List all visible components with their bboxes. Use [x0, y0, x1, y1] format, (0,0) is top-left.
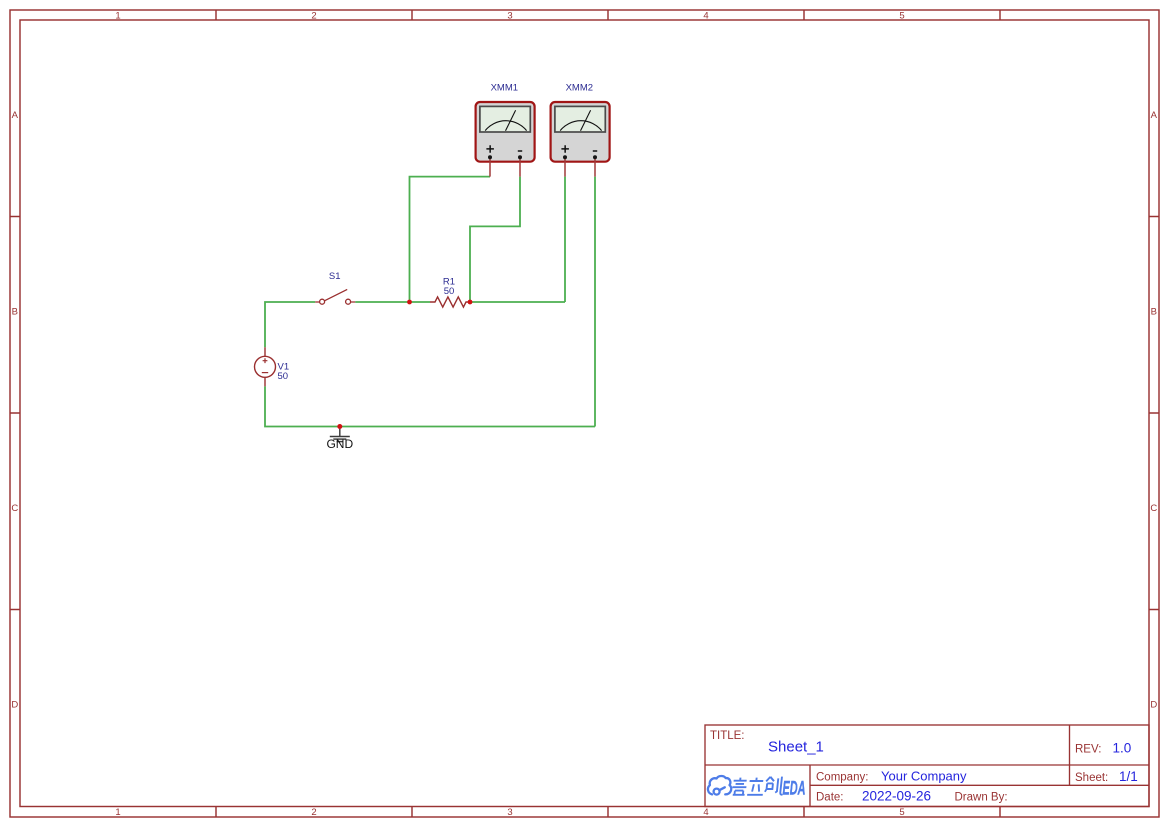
svg-text:B: B	[1151, 307, 1157, 318]
column ticks bottom	[216, 807, 1000, 818]
switch S1	[315, 289, 355, 304]
junction node A	[407, 300, 412, 305]
title block values	[768, 739, 1138, 804]
svg-text:EDA: EDA	[783, 779, 806, 800]
svg-text:Sheet:: Sheet:	[1075, 772, 1108, 784]
title block outline	[705, 725, 1149, 807]
svg-text:REV:: REV:	[1075, 744, 1101, 756]
frame column numbers top	[115, 10, 904, 21]
wire switch left to V1 top	[265, 302, 315, 347]
svg-text:4: 4	[703, 807, 708, 818]
svg-text:A: A	[1151, 110, 1158, 121]
svg-text:2: 2	[311, 807, 316, 818]
wire XMM2+ riser	[564, 177, 566, 302]
svg-text:B: B	[12, 307, 18, 318]
column ticks top	[216, 10, 1000, 20]
svg-text:4: 4	[703, 10, 708, 21]
svg-text:XMM1: XMM1	[491, 83, 518, 94]
resistor R1	[430, 297, 470, 307]
wire resistor right to XMM2 riser	[470, 301, 565, 303]
svg-text:Company:: Company:	[816, 771, 868, 783]
svg-text:1: 1	[115, 807, 120, 818]
wire XMM2- to bottom	[594, 177, 596, 427]
svg-text:A: A	[12, 110, 19, 121]
svg-text:Date:: Date:	[816, 792, 844, 804]
svg-text:Sheet_1: Sheet_1	[768, 739, 824, 756]
svg-text:XMM2: XMM2	[566, 83, 593, 94]
wire switch right to node A	[355, 301, 430, 303]
frame row letters left	[11, 110, 18, 710]
svg-text:1: 1	[115, 10, 120, 21]
row ticks left	[10, 217, 20, 610]
svg-text:5: 5	[899, 10, 904, 21]
svg-text:C: C	[1150, 503, 1157, 514]
svg-text:Your Company: Your Company	[881, 768, 967, 783]
logo EasyEDA cloud	[708, 776, 731, 795]
svg-text:C: C	[11, 503, 18, 514]
svg-text:1.0: 1.0	[1113, 741, 1132, 756]
svg-text:2022-09-26: 2022-09-26	[862, 789, 931, 804]
voltage source V1	[255, 347, 276, 386]
svg-text:1/1: 1/1	[1119, 769, 1138, 784]
frame row letters right	[1150, 110, 1157, 710]
svg-text:D: D	[1150, 699, 1157, 710]
svg-text:3: 3	[507, 807, 512, 818]
svg-text:S1: S1	[329, 271, 341, 282]
wire XMM1+ to node A	[410, 177, 491, 302]
svg-text:5: 5	[899, 807, 904, 818]
svg-text:3: 3	[507, 10, 512, 21]
wire bottom run V1 to XMM2-	[265, 386, 595, 426]
row ticks right	[1149, 217, 1159, 610]
svg-text:GND: GND	[326, 437, 353, 451]
junction node B resistor right	[468, 300, 473, 305]
svg-text:Drawn By:: Drawn By:	[955, 792, 1008, 804]
ground symbol	[330, 427, 350, 442]
svg-text:50: 50	[278, 371, 289, 382]
junction node GND	[337, 424, 342, 429]
svg-text:D: D	[11, 699, 18, 710]
logo text 嘉立创 simplified strokes	[732, 777, 785, 795]
svg-text:TITLE:: TITLE:	[710, 730, 745, 742]
frame column numbers bottom	[115, 807, 904, 818]
wire XMM1- to resistor right	[470, 177, 520, 302]
svg-text:50: 50	[444, 286, 455, 297]
title block text labels	[710, 730, 1108, 804]
multimeter XMM1	[476, 102, 535, 177]
svg-text:2: 2	[311, 10, 316, 21]
multimeter XMM2	[551, 102, 610, 177]
